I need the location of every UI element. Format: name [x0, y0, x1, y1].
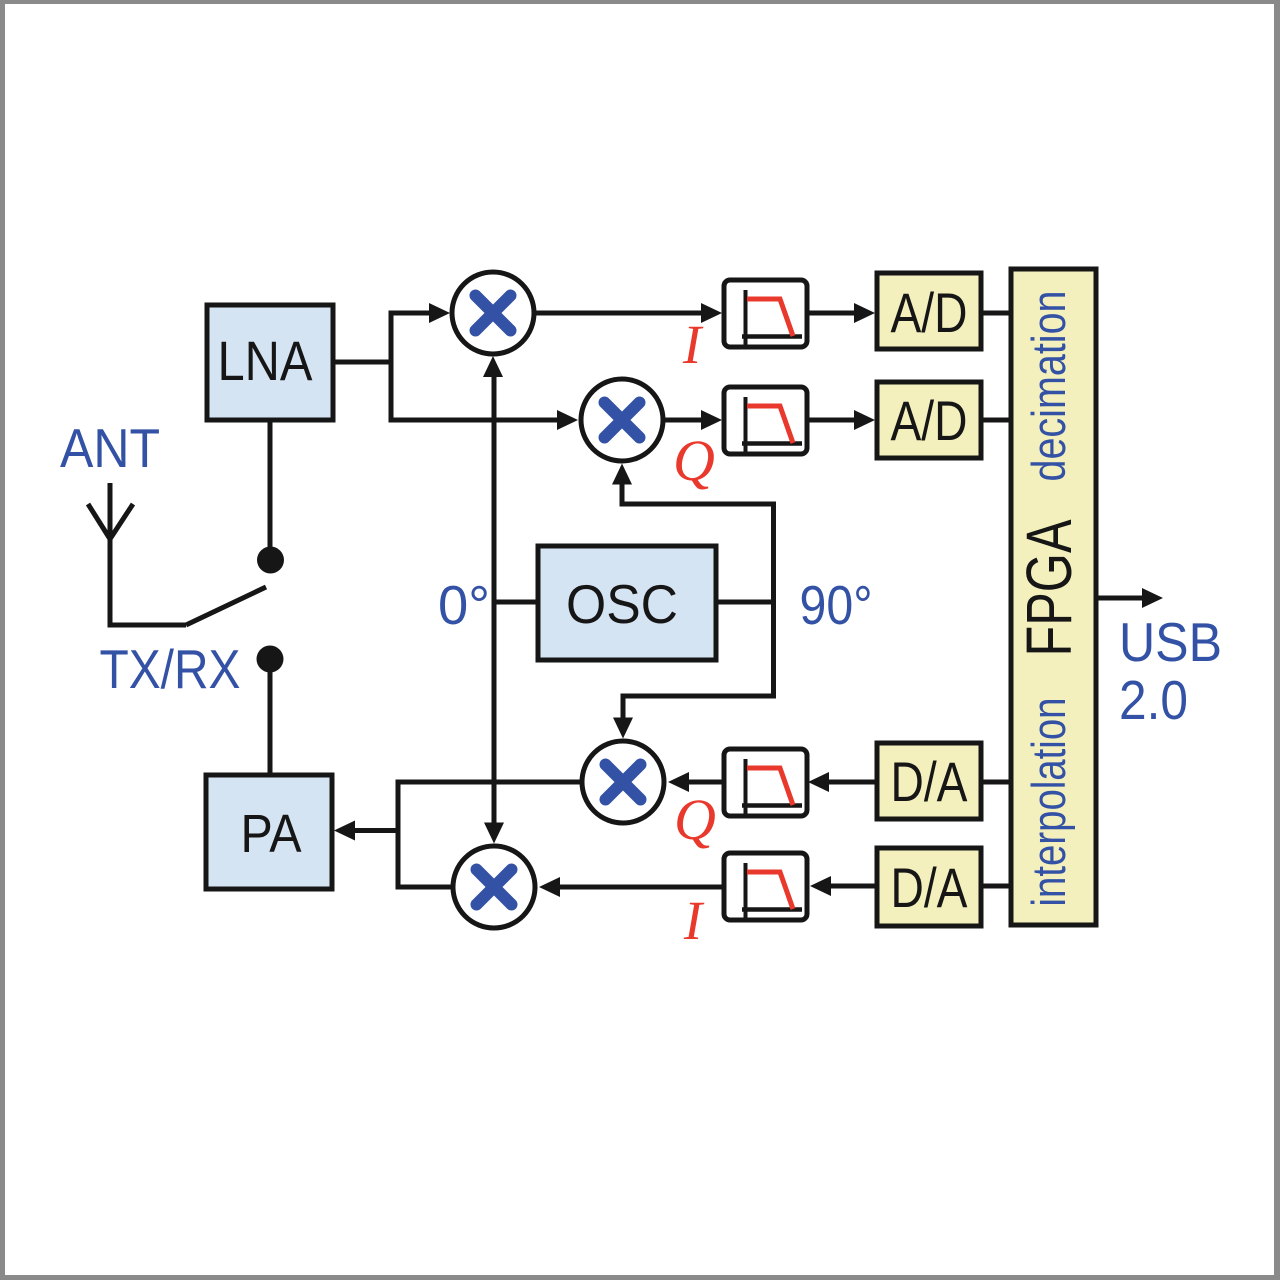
switch blade [186, 587, 266, 625]
label USB 2.0 [1119, 611, 1222, 731]
svg-text:OSC: OSC [566, 573, 678, 635]
wire 0-degree LO vertical [492, 376, 497, 824]
filter FIL3 [724, 749, 807, 816]
wire LNA output to fork [333, 360, 393, 365]
svg-text:USB: USB [1119, 611, 1222, 673]
wire A/D 1 to FPGA [981, 311, 1013, 316]
svg-text:PA: PA [241, 804, 302, 864]
wire OSC 90-degree output [714, 600, 776, 605]
wire 90-degree LO bottom jog [623, 696, 776, 720]
mixer M4 [453, 846, 535, 928]
filter FIL1 [724, 280, 807, 347]
svg-text:0°: 0° [438, 574, 490, 636]
wire OSC 0-degree output [492, 600, 541, 605]
svg-text:TX/RX: TX/RX [100, 638, 241, 700]
wire fork to mixer M1 [391, 303, 450, 323]
wire filter FIL1 to A/D 1 [807, 303, 875, 323]
node TX contact dot [257, 646, 284, 673]
antenna ANT symbol [88, 483, 186, 625]
filter FIL4 [724, 853, 807, 920]
wire fork to mixer M2 [391, 410, 578, 430]
wire filter FIL4 to mixer M4 [539, 877, 724, 897]
wire FPGA to D/A 1 [981, 780, 1013, 785]
block OSC [538, 546, 716, 660]
wire filter FIL2 to A/D 2 [807, 410, 875, 430]
arrow 0-degree LO into mixer M4 [484, 823, 504, 844]
svg-text:90°: 90° [800, 574, 873, 636]
wire LNA bottom to switch [268, 419, 273, 552]
svg-text:interpolation: interpolation [1022, 698, 1075, 907]
mixer M3 [582, 741, 664, 823]
wire mixer M2 to filter FIL2 [663, 410, 722, 430]
wire A/D 2 to FPGA [981, 418, 1013, 423]
wire 90-degree LO top jog [622, 482, 776, 504]
wire FPGA to D/A 2 [981, 884, 1013, 889]
wire filter FIL3 to mixer M3 [668, 772, 724, 792]
svg-text:2.0: 2.0 [1119, 669, 1188, 731]
svg-text:I: I [683, 890, 705, 951]
wire TX bus vertical [396, 780, 401, 890]
svg-text:D/A: D/A [891, 856, 969, 919]
svg-text:ANT: ANT [60, 417, 160, 479]
wire 90-degree LO vertical [771, 502, 776, 699]
block D/A 2 [877, 848, 981, 926]
svg-text:decimation: decimation [1022, 291, 1075, 482]
svg-text:FPGA: FPGA [1013, 519, 1085, 656]
svg-text:LNA: LNA [218, 329, 314, 392]
wire D/A 2 to filter FIL4 [810, 876, 877, 896]
filter FIL2 [724, 387, 807, 454]
svg-text:D/A: D/A [891, 750, 969, 813]
block D/A 1 [877, 743, 981, 819]
svg-text:Q: Q [674, 787, 716, 852]
wire FPGA to USB arrow [1096, 588, 1163, 608]
block A/D 1 [877, 273, 981, 349]
block A/D 2 [877, 382, 981, 458]
svg-text:I: I [682, 314, 704, 375]
node RX contact dot [257, 547, 284, 574]
block FPGA [1011, 269, 1096, 925]
mixer M1 [452, 272, 534, 354]
arrow 90-degree LO into mixer M2 [612, 464, 632, 485]
wire D/A 1 to filter FIL3 [808, 772, 877, 792]
wire fork vertical [389, 311, 394, 423]
arrow 90-degree LO into mixer M3 [613, 718, 633, 739]
mixer M2 [581, 379, 663, 461]
svg-text:A/D: A/D [891, 281, 968, 344]
block LNA [207, 305, 333, 420]
arrow 0-degree LO into mixer M1 [483, 356, 503, 377]
wire mixer M4 output to TX bus [396, 885, 454, 890]
wire TX contact to PA top [268, 659, 273, 777]
wire TX bus to PA [334, 821, 398, 841]
wire mixer M1 to filter FIL1 [534, 303, 722, 323]
wire mixer M3 output to TX bus [396, 780, 583, 785]
svg-text:A/D: A/D [891, 389, 968, 452]
svg-text:Q: Q [673, 428, 715, 493]
block PA [206, 775, 332, 889]
